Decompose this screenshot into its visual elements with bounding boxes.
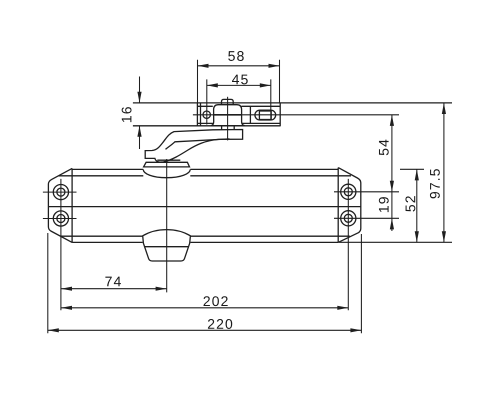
bottom valve cover <box>143 230 191 261</box>
dimension label 52 (rotated) <box>405 196 415 211</box>
body second line <box>59 175 352 177</box>
dim 220 extension lines <box>48 233 362 333</box>
arm (main link) <box>145 130 242 163</box>
dimension label 16 (rotated) <box>122 107 132 122</box>
dim 52 top tick line <box>400 168 424 170</box>
bracket neck below plate <box>222 126 235 130</box>
bracket plate divider line <box>249 106 251 123</box>
body bottom edge (extends right for 52/97.5 dims) <box>72 241 338 243</box>
left plate junction line <box>71 168 73 242</box>
dim 74 line <box>61 288 167 290</box>
dim 45 extension lines <box>207 79 271 124</box>
arm fold line <box>166 139 230 149</box>
valve cover joint line <box>144 246 189 248</box>
dim 52 line <box>416 169 418 242</box>
arm pivot axis line <box>227 97 229 141</box>
bracket pivot knob <box>222 99 234 104</box>
left screw hole 1 <box>53 185 68 200</box>
dim 16 line lower part <box>139 126 141 149</box>
dim 58 line <box>198 65 280 67</box>
bracket bell mid line <box>214 114 242 116</box>
body fourth line <box>61 235 350 237</box>
bracket plate inner bottom line <box>197 122 280 124</box>
dim 45 line <box>207 84 271 86</box>
dimension label 202 <box>204 296 228 306</box>
body middle line <box>48 206 360 208</box>
arm collar line <box>157 159 180 161</box>
dimension label 74 <box>105 277 121 287</box>
dim 202 line <box>61 307 348 309</box>
right plate junction line <box>337 168 339 243</box>
left screw hole 2 <box>53 211 68 226</box>
bracket screw hole <box>203 111 210 118</box>
dim 58 extension lines <box>198 60 280 103</box>
pivot washer plate <box>144 162 190 167</box>
bracket plate top edge line (extends left for 16 dim and right for 97.5 dim) <box>133 102 452 104</box>
bracket plate left edge <box>196 103 198 126</box>
centre line through pivot <box>166 159 168 292</box>
right hole vertical centre line / extension <box>347 179 349 310</box>
bracket plate inner top line <box>197 105 280 107</box>
dimension label 54 (rotated) <box>379 140 389 156</box>
bracket hole centre line (extends right for 54 dim) <box>193 114 399 116</box>
right screw hole 1 <box>341 184 356 199</box>
bracket slot obround <box>255 110 276 120</box>
dimension label 58 <box>228 51 244 61</box>
bracket bell housing <box>211 105 245 126</box>
left end plate outline <box>48 168 72 242</box>
right screw hole 2 <box>341 211 356 226</box>
bracket slot inner rectangle <box>259 111 271 120</box>
dim 97.5 line <box>443 103 445 242</box>
pinion boss bulge <box>143 169 190 177</box>
right end plate outline <box>338 168 361 243</box>
dim 54 line <box>391 115 393 192</box>
left hole crosshair lines <box>43 192 77 218</box>
right hole crosshair lines (extend right as 54/19 dim ticks) <box>334 192 399 219</box>
bracket plate right edge <box>279 103 281 126</box>
dimension label 220 <box>208 319 232 329</box>
dim 220 line <box>48 329 362 331</box>
dimension label 97.5 (rotated) <box>430 169 440 198</box>
dim 19 line <box>391 192 393 231</box>
dimension label 45 <box>232 75 248 85</box>
body bottom extension line right <box>338 241 452 243</box>
bracket plate left inner edge <box>200 103 202 126</box>
dimension label 19 (rotated) <box>379 197 389 212</box>
bracket plate bottom edge line (extends left for 16 dim) <box>133 125 280 127</box>
left hole vertical centre line / extension <box>60 179 62 310</box>
dim 16 line upper part <box>139 77 141 103</box>
body top edge <box>72 168 338 170</box>
